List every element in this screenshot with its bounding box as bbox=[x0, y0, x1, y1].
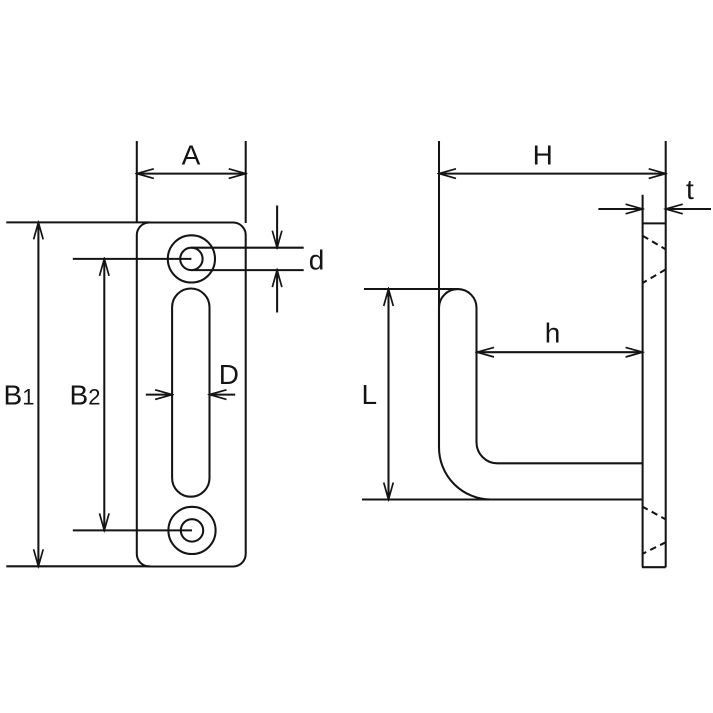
top hole outer circle bbox=[168, 235, 215, 282]
svg-text:B1: B1 bbox=[4, 380, 35, 411]
t arrow left bbox=[598, 208, 642, 210]
svg-text:A: A bbox=[182, 139, 201, 170]
extension line B2 bottom (through bottom hole centre) bbox=[73, 529, 192, 531]
extension line A right bbox=[245, 141, 247, 223]
extension line B2 top (through top hole centre) bbox=[73, 258, 192, 260]
svg-text:D: D bbox=[219, 359, 239, 390]
dimension line L bbox=[387, 289, 389, 500]
t arrow right bbox=[666, 208, 711, 210]
dimension line h bbox=[477, 351, 643, 353]
break mark bottom (dashed zigzag) bbox=[642, 506, 666, 554]
bottom hole inner circle bbox=[181, 519, 203, 541]
extension line H right / plate back face bbox=[665, 141, 667, 567]
d arrow lower bbox=[276, 270, 278, 312]
plate section bottom edge bbox=[642, 566, 666, 568]
bottom hole outer circle bbox=[168, 507, 215, 554]
svg-text:B2: B2 bbox=[70, 380, 101, 411]
svg-text:H: H bbox=[533, 139, 553, 170]
break mark top (dashed zigzag) bbox=[643, 236, 666, 283]
extension line B1 bottom bbox=[6, 565, 150, 567]
dimension line A bbox=[137, 173, 246, 175]
plate section top edge bbox=[643, 222, 666, 224]
svg-text:t: t bbox=[686, 174, 694, 205]
d tangent line top bbox=[191, 247, 303, 249]
D arrow left bbox=[146, 394, 172, 396]
extension line H left (hook face) bbox=[438, 141, 440, 449]
d arrow upper bbox=[276, 206, 278, 248]
plate section front face bbox=[642, 195, 644, 568]
D arrow right bbox=[210, 394, 236, 396]
svg-text:h: h bbox=[545, 318, 561, 349]
svg-text:d: d bbox=[309, 245, 325, 276]
dimension line H bbox=[439, 173, 666, 175]
d tangent line bottom bbox=[191, 269, 303, 271]
plate outline (front view) bbox=[137, 223, 246, 567]
extension line B1 top bbox=[6, 221, 150, 223]
hook outline (side view) bbox=[439, 289, 643, 499]
extension line L top bbox=[364, 288, 459, 290]
top hole inner circle bbox=[180, 248, 202, 270]
dimension line B1 bbox=[37, 222, 39, 566]
svg-text:L: L bbox=[362, 379, 378, 410]
extension line L bottom bbox=[362, 498, 492, 500]
slot (stadium cutout) bbox=[172, 289, 209, 497]
extension line A left bbox=[136, 141, 138, 223]
dimension line B2 bbox=[103, 259, 105, 531]
